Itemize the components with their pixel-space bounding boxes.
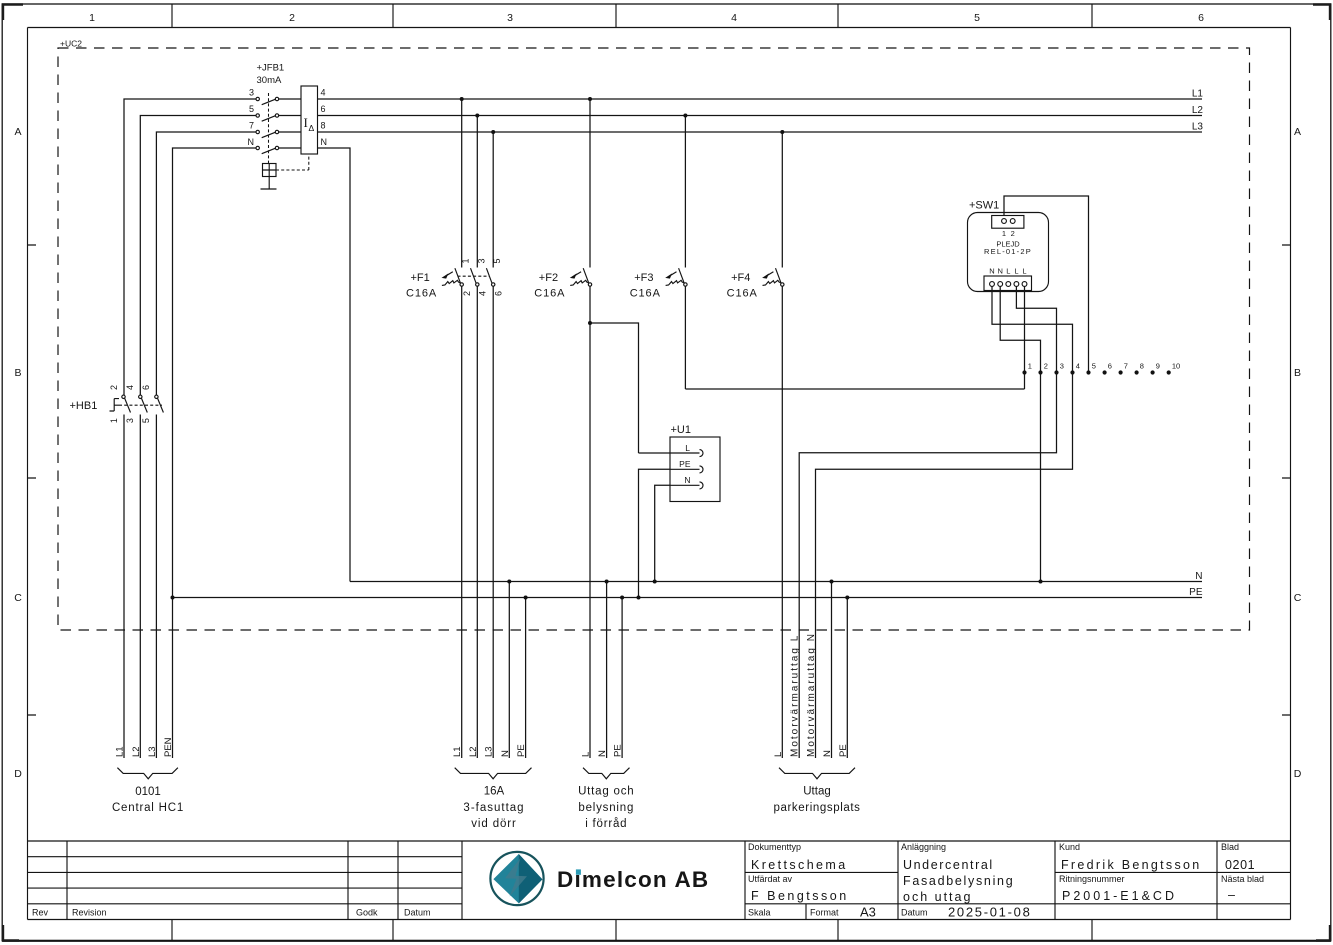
wire L2 bus — [318, 115, 1203, 117]
svg-text:vid dörr: vid dörr — [471, 818, 517, 830]
HB1 pole 3-4 contact — [139, 395, 148, 412]
wire SW1 N1 to terminal 4 — [992, 287, 1073, 373]
U1 terminal PE — [670, 466, 703, 473]
svg-text:6: 6 — [141, 385, 151, 390]
svg-text:Format: Format — [810, 908, 839, 918]
svg-text:2025-01-08: 2025-01-08 — [948, 905, 1032, 920]
svg-text:REL-01-2P: REL-01-2P — [984, 247, 1032, 256]
wire PE drop cable 3 — [621, 598, 623, 759]
wire terminal 2 to N bus — [1040, 373, 1042, 582]
svg-text:L: L — [1022, 267, 1026, 276]
svg-text:3: 3 — [1060, 362, 1064, 371]
svg-text:3: 3 — [249, 88, 254, 98]
svg-text:L: L — [685, 443, 690, 453]
svg-text:1: 1 — [1028, 362, 1032, 371]
svg-text:Revision: Revision — [72, 908, 107, 918]
svg-text:A: A — [14, 126, 21, 138]
svg-text:parkeringsplats: parkeringsplats — [774, 802, 861, 814]
junction dots N bus — [507, 580, 1042, 584]
svg-text:Blad: Blad — [1221, 842, 1239, 852]
HB1 pole 1-2 contact — [122, 395, 131, 412]
junction dots PE bus — [171, 596, 850, 600]
JFB1 linkage — [268, 93, 270, 164]
wire N feed from RCD — [318, 148, 351, 582]
svg-text:10: 10 — [1172, 362, 1180, 371]
svg-text:9: 9 — [1156, 362, 1160, 371]
svg-text:1: 1 — [461, 258, 471, 263]
svg-text:4: 4 — [477, 291, 487, 296]
terminal strip 1-10 — [1022, 362, 1180, 375]
cable 0101 Central HC1 — [112, 737, 184, 814]
outlet +U1 — [670, 424, 720, 502]
RCD +JFB1 30mA — [248, 63, 328, 190]
svg-text:L2: L2 — [1192, 105, 1204, 116]
svg-text:PE: PE — [613, 744, 624, 757]
svg-text:+F2: +F2 — [539, 272, 558, 284]
svg-text:8: 8 — [1140, 362, 1144, 371]
svg-text:Rev: Rev — [32, 908, 49, 918]
enclosure +UC2 dashed boundary — [58, 39, 1250, 631]
svg-text:4: 4 — [321, 88, 326, 98]
wire incoming L1 riser — [124, 99, 256, 758]
JFB1 pole 7-8 contact — [256, 130, 301, 137]
U1 terminal L — [670, 450, 703, 457]
cable Uttag parkeringsplats — [773, 632, 861, 814]
HB1 pole 5-6 contact — [155, 395, 164, 412]
svg-text:2: 2 — [109, 385, 119, 390]
svg-text:1: 1 — [89, 12, 95, 24]
svg-text:D: D — [14, 768, 22, 780]
svg-text:2: 2 — [1044, 362, 1048, 371]
svg-text:4: 4 — [125, 385, 135, 390]
svg-text:N: N — [500, 750, 511, 757]
HB1 linkage and handle — [119, 404, 162, 406]
svg-text:N: N — [248, 137, 255, 147]
wire PE bus — [173, 597, 1203, 599]
svg-text:A: A — [1294, 126, 1301, 138]
cable Uttag och belysning i f&#246;rr&#229;d — [578, 744, 634, 830]
svg-text:L: L — [773, 752, 784, 757]
wire SW1 switch input to terminal 5 — [1004, 196, 1089, 373]
U1 terminal N — [670, 482, 703, 489]
svg-text:B: B — [14, 367, 21, 379]
svg-text:C16A: C16A — [630, 287, 661, 299]
svg-text:I: I — [304, 115, 308, 130]
svg-text:Anläggning: Anläggning — [901, 842, 946, 852]
svg-text:Godk: Godk — [356, 908, 378, 918]
svg-text:PE: PE — [679, 459, 691, 469]
svg-text:Nästa blad: Nästa blad — [1221, 874, 1264, 884]
svg-text:+F3: +F3 — [634, 272, 653, 284]
wire SW1 N2 to terminal 2 — [1000, 287, 1040, 373]
svg-text:4: 4 — [1076, 362, 1080, 371]
F1 pole 1-2 contact — [455, 99, 464, 758]
JFB1 Id sensing box — [301, 86, 318, 154]
wire N drop cable 4 — [831, 582, 833, 759]
svg-text:L: L — [1006, 267, 1010, 276]
svg-text:Undercentral: Undercentral — [903, 858, 994, 872]
wire U1 PE to PE bus — [639, 469, 671, 597]
wire terminal 4 to parking outlet N — [816, 373, 1073, 759]
svg-text:L2: L2 — [131, 746, 142, 757]
node F2 junction — [588, 321, 592, 325]
svg-text:C16A: C16A — [534, 287, 565, 299]
JFB1 pole N-N contact — [256, 146, 301, 153]
svg-text:5: 5 — [249, 104, 254, 114]
svg-text:1: 1 — [109, 418, 119, 423]
svg-text:N: N — [989, 267, 994, 276]
svg-text:L3: L3 — [147, 746, 158, 757]
svg-text:30mA: 30mA — [257, 75, 282, 86]
wire terminal 3 to parking outlet L — [799, 373, 1056, 759]
svg-text:6: 6 — [321, 104, 326, 114]
svg-text:L3: L3 — [1192, 122, 1204, 133]
svg-text:0201: 0201 — [1225, 858, 1255, 872]
svg-text:8: 8 — [321, 121, 326, 131]
svg-text:+U1: +U1 — [671, 424, 692, 436]
svg-text:F Bengtsson: F Bengtsson — [751, 889, 849, 903]
svg-text:L2: L2 — [468, 746, 479, 757]
svg-text:5: 5 — [974, 12, 980, 24]
svg-text:P2001-E1&CD: P2001-E1&CD — [1062, 889, 1177, 903]
svg-text:PE: PE — [1189, 587, 1203, 598]
svg-text:N: N — [684, 475, 690, 485]
svg-text:PE: PE — [838, 744, 849, 757]
svg-text:L: L — [581, 752, 592, 757]
svg-text:1: 1 — [1002, 229, 1006, 238]
wire U1 L entry — [639, 452, 671, 454]
wire L1 bus — [318, 98, 1203, 100]
svg-text:N: N — [997, 267, 1002, 276]
svg-text:Datum: Datum — [404, 908, 431, 918]
svg-text:+F1: +F1 — [411, 272, 430, 284]
wire incoming L3 riser — [156, 132, 256, 758]
svg-text:N: N — [822, 750, 833, 757]
svg-text:N: N — [597, 750, 608, 757]
wire N bus — [350, 581, 1202, 583]
svg-text:N: N — [1195, 571, 1202, 582]
F1 pole 5-6 contact — [486, 132, 495, 758]
svg-text:PEN: PEN — [163, 737, 174, 757]
svg-text:och uttag: och uttag — [903, 890, 972, 904]
svg-text:PE: PE — [516, 744, 527, 757]
svg-text:Motorvärmaruttag L: Motorvärmaruttag L — [790, 634, 801, 757]
svg-text:belysning: belysning — [578, 802, 634, 814]
company logo Dimelcon AB — [490, 852, 709, 905]
svg-text:2: 2 — [289, 12, 295, 24]
svg-text:3: 3 — [125, 418, 135, 423]
breaker +F4 C16A — [727, 132, 784, 758]
svg-text:Fasadbelysning: Fasadbelysning — [903, 874, 1014, 888]
cable 16A 3-fasuttag vid d&#246;rr — [452, 744, 531, 830]
wire N drop cable 3 — [606, 582, 608, 759]
svg-text:+JFB1: +JFB1 — [257, 63, 285, 74]
svg-text:Uttag och: Uttag och — [578, 786, 634, 798]
svg-text:Uttag: Uttag — [803, 786, 831, 798]
svg-text:Dokumenttyp: Dokumenttyp — [748, 842, 801, 852]
svg-text:N: N — [321, 137, 328, 147]
svg-text:Kund: Kund — [1059, 842, 1080, 852]
wire N drop outlet cable 2 — [508, 582, 510, 759]
svg-text:4: 4 — [731, 12, 737, 24]
switch +HB1 — [70, 385, 164, 423]
wire PE drop outlet cable 2 — [525, 598, 527, 759]
svg-text:D: D — [1294, 768, 1302, 780]
svg-text:B: B — [1294, 367, 1301, 379]
svg-text:5: 5 — [492, 258, 502, 263]
svg-text:C: C — [1294, 592, 1302, 604]
svg-text:Central HC1: Central HC1 — [112, 802, 184, 814]
svg-text:6: 6 — [493, 291, 503, 296]
svg-text:+UC2: +UC2 — [60, 39, 82, 49]
wire incoming PEN riser — [173, 148, 257, 758]
wire L3 bus — [318, 131, 1203, 133]
svg-text:+SW1: +SW1 — [969, 200, 999, 212]
wire F2 to outlet U1 L — [590, 323, 639, 453]
wire F3 to terminal 1 — [685, 388, 1024, 390]
svg-text:L3: L3 — [484, 746, 495, 757]
svg-text:L1: L1 — [1192, 89, 1204, 100]
svg-text:i förråd: i förråd — [585, 818, 627, 830]
F1 pole 3-4 contact — [471, 116, 479, 759]
svg-text:Datum: Datum — [901, 908, 928, 918]
svg-text:C16A: C16A — [406, 287, 437, 299]
svg-text:6: 6 — [1198, 12, 1204, 24]
JFB1 pole 5-6 contact — [256, 114, 301, 121]
svg-text:L1: L1 — [115, 746, 126, 757]
svg-text:Δ: Δ — [309, 123, 315, 133]
svg-text:+F4: +F4 — [731, 272, 750, 284]
wire SW1 L in to terminal 1 — [1024, 287, 1026, 390]
svg-text:–: – — [1228, 888, 1235, 902]
svg-text:7: 7 — [249, 121, 254, 131]
svg-text:3: 3 — [476, 258, 486, 263]
svg-text:3: 3 — [507, 12, 513, 24]
wire incoming L2 riser — [140, 116, 256, 759]
svg-text:C: C — [14, 592, 22, 604]
svg-text:2: 2 — [462, 291, 472, 296]
junction dots phase buses — [460, 97, 785, 134]
svg-text:6: 6 — [1108, 362, 1112, 371]
svg-text:3-fasuttag: 3-fasuttag — [463, 802, 524, 814]
wire SW1 L out to terminal 3 — [1016, 287, 1056, 373]
wire PE drop cable 4 — [846, 598, 848, 759]
svg-text:L1: L1 — [452, 746, 463, 757]
breaker +F3 C16A — [630, 116, 687, 390]
wire U1 N to N bus — [655, 485, 670, 581]
svg-text:5: 5 — [1092, 362, 1096, 371]
svg-text:Skala: Skala — [748, 908, 771, 918]
svg-text:7: 7 — [1124, 362, 1128, 371]
relay +SW1 PLEJD REL-01-2P — [968, 200, 1049, 292]
svg-text:0101: 0101 — [135, 786, 161, 798]
svg-text:L: L — [1014, 267, 1018, 276]
JFB1 test button — [261, 154, 309, 189]
F1 release arrow and latch — [442, 272, 461, 286]
F1 linkage — [458, 275, 490, 277]
breaker +F1 C16A 3-pole — [406, 99, 503, 758]
svg-text:A3: A3 — [860, 905, 876, 920]
svg-text:Ritningsnummer: Ritningsnummer — [1059, 874, 1125, 884]
svg-text:Motorvärmaruttag N: Motorvärmaruttag N — [806, 632, 817, 757]
svg-text:2: 2 — [1011, 229, 1015, 238]
title block — [28, 841, 1291, 920]
svg-text:Fredrik Bengtsson: Fredrik Bengtsson — [1061, 858, 1202, 872]
svg-text:C16A: C16A — [727, 287, 758, 299]
svg-text:+HB1: +HB1 — [70, 400, 98, 412]
svg-text:Utfärdat av: Utfärdat av — [748, 874, 793, 884]
svg-text:16A: 16A — [484, 786, 505, 798]
JFB1 pole 3-4 contact — [256, 97, 301, 104]
svg-text:Krettschema: Krettschema — [751, 858, 848, 872]
breaker +F2 C16A — [534, 99, 591, 758]
svg-text:5: 5 — [141, 418, 151, 423]
